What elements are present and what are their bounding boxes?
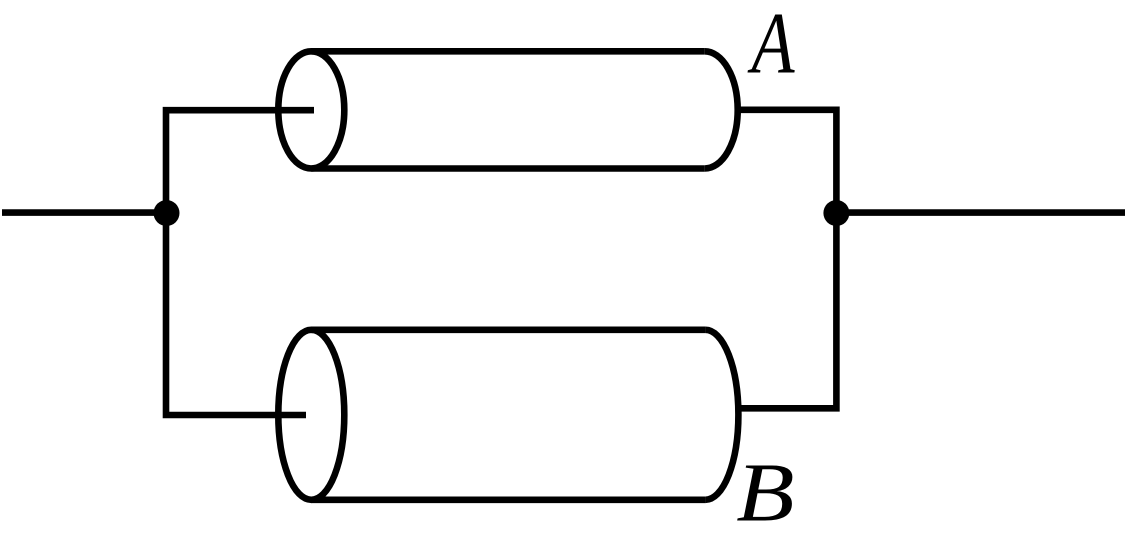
wire: left branch (vertical riser with stubs into A and B) [166,110,314,415]
wire: right output lead [836,209,1125,216]
node: right junction dot [823,200,849,226]
conductor B: body bottom line [311,496,705,503]
wire: left input lead [2,209,166,216]
node: left junction dot [154,200,180,226]
conductor B: left end ellipse [278,330,344,500]
conductor B: right end cap [705,330,738,500]
conductor A: body bottom line [311,165,704,172]
svg-text:A: A [747,0,796,92]
conductor A: body top line [311,48,704,55]
svg-text:B: B [736,447,794,539]
wire: right branch (from A down past junction to B) [738,110,837,409]
conductor A: left end ellipse [278,51,344,168]
conductor B: body top line [311,326,705,333]
conductor A: right end cap [705,51,738,168]
